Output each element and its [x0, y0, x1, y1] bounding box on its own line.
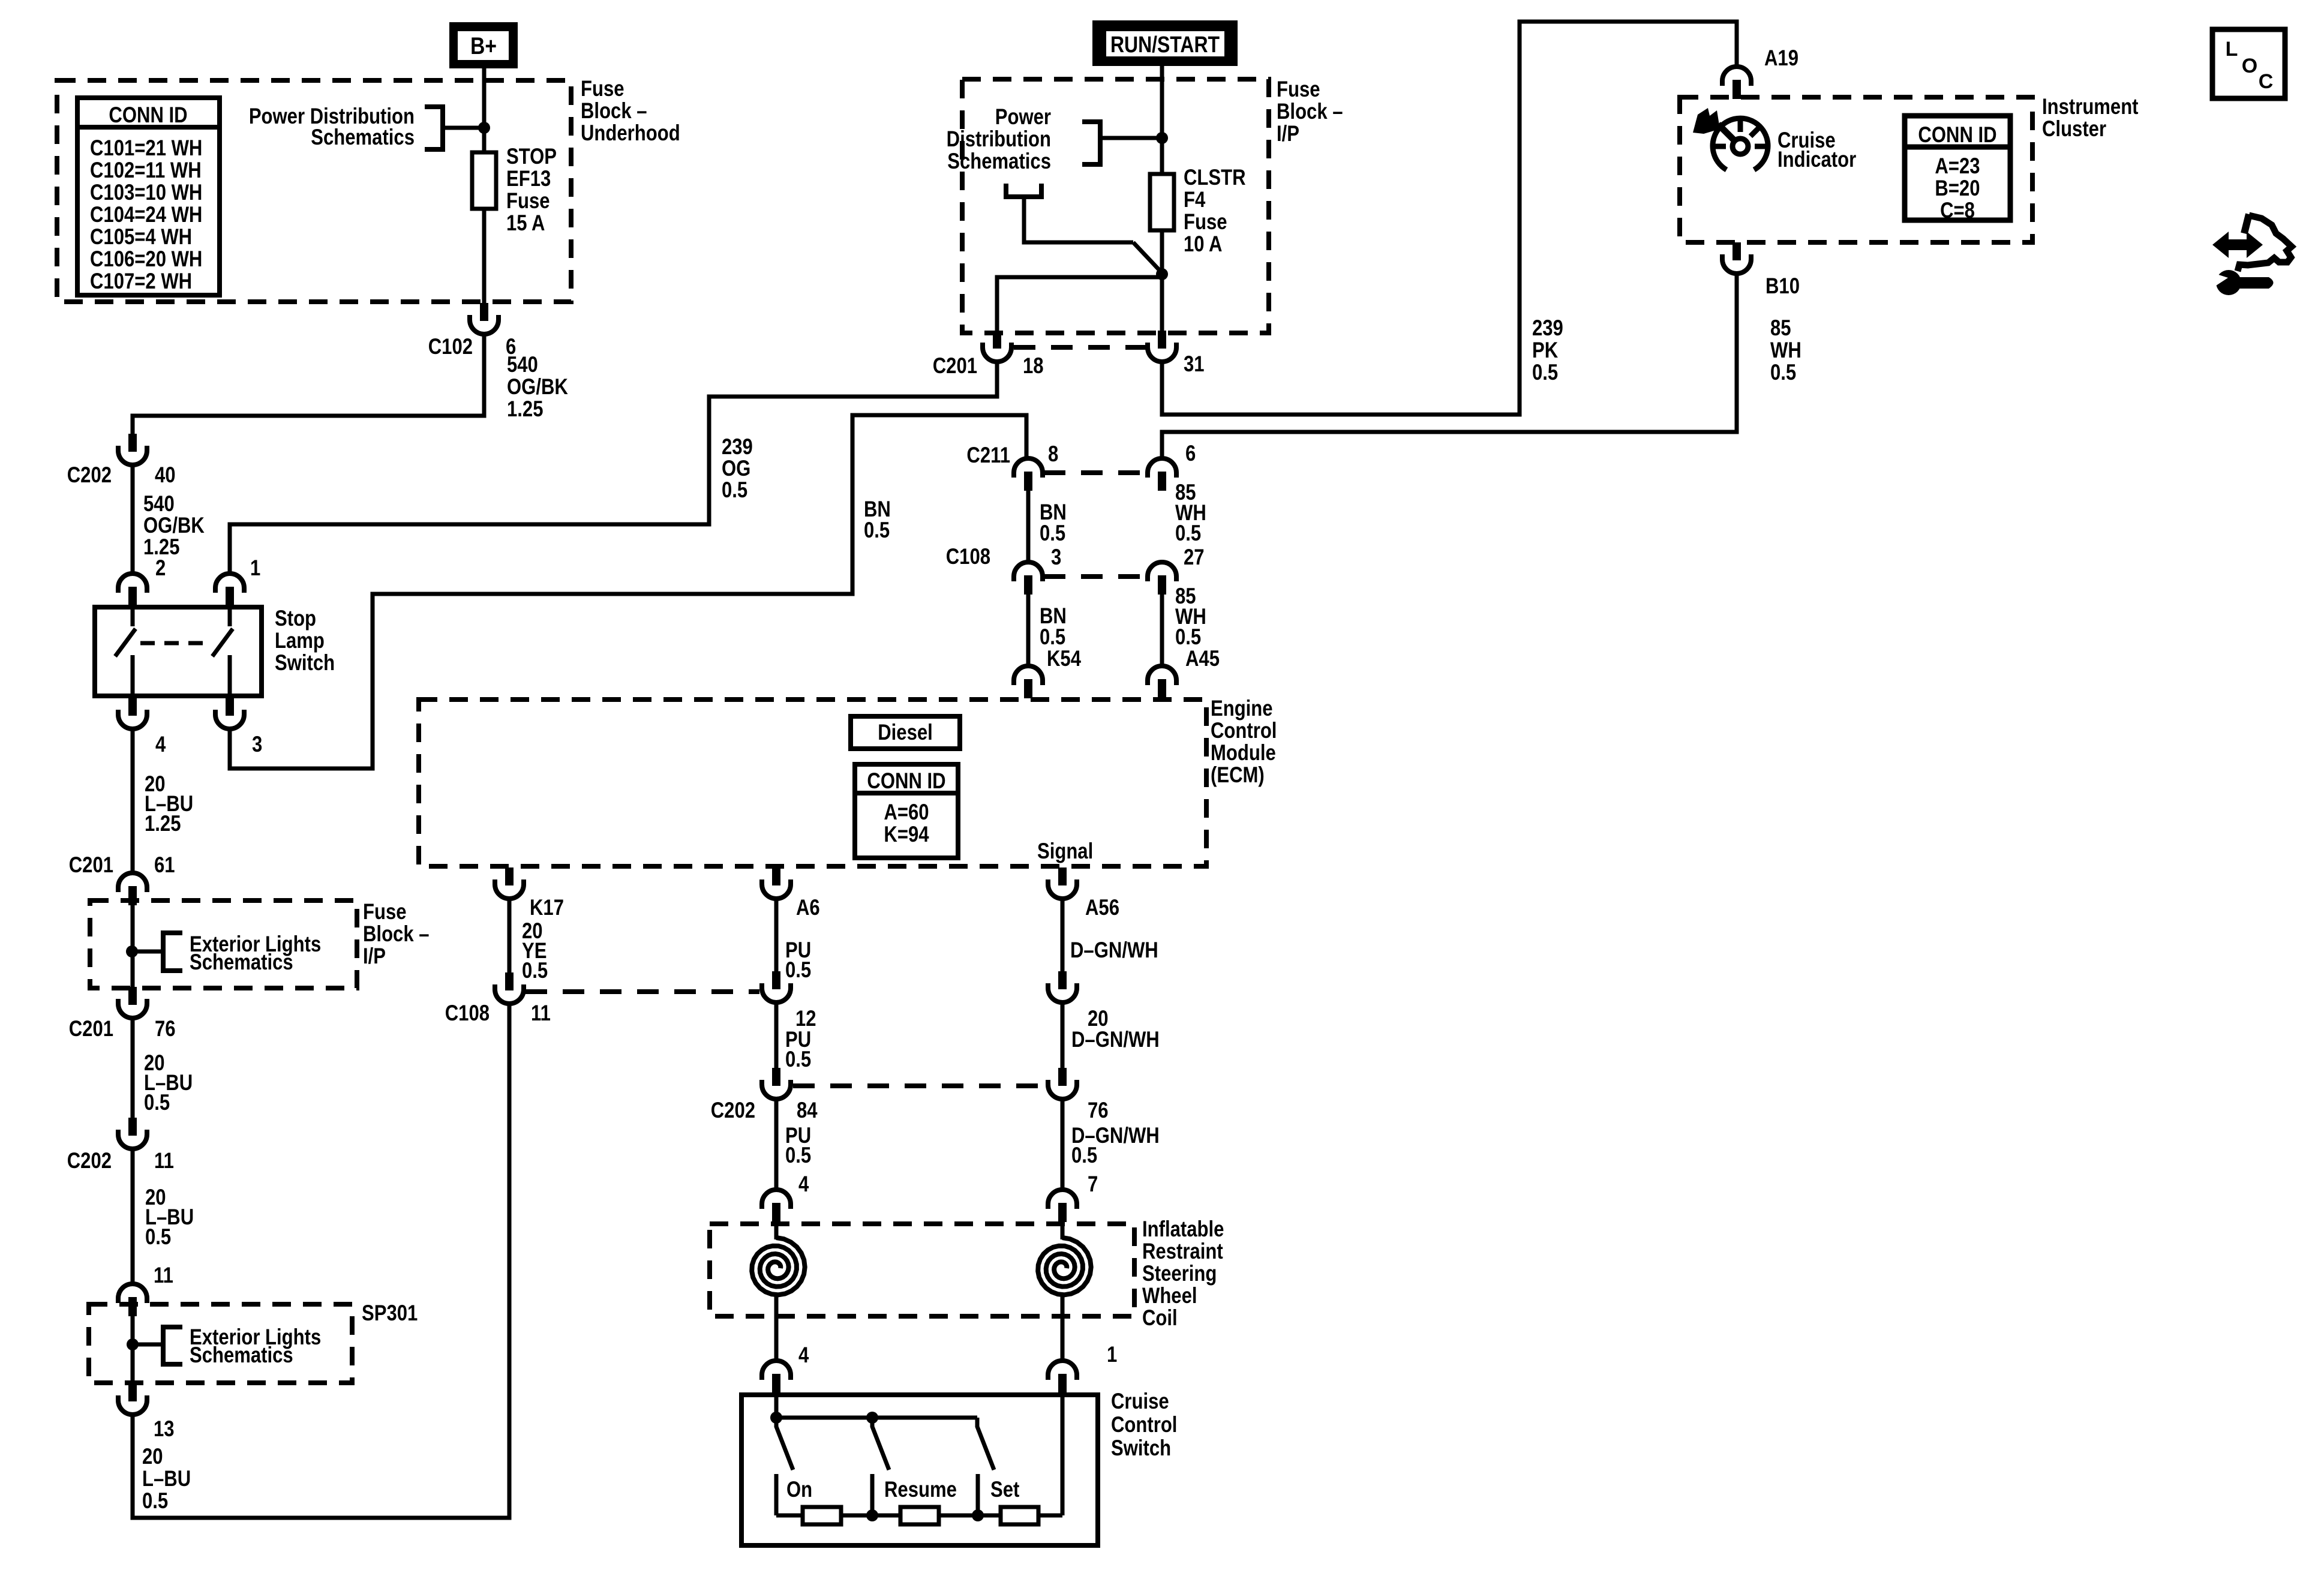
wire pin1 into switch: [1061, 1393, 1065, 1515]
wire C202-11 to SP301: [131, 1150, 135, 1284]
svg-text:84: 84: [797, 1098, 818, 1123]
wire pin2 stub into box: [131, 605, 135, 626]
connector stop lamp pin 2: [118, 574, 147, 606]
wire into left coil: [774, 1222, 779, 1239]
svg-text:C202: C202: [711, 1098, 755, 1123]
connector C202 pin 84: [762, 1068, 791, 1099]
wire dot to bracket upper: [132, 950, 163, 954]
switch blade On: [776, 1420, 793, 1470]
wire B+ down to fuse: [482, 66, 487, 155]
svg-text:2: 2: [155, 556, 166, 581]
wire into right coil: [1061, 1222, 1065, 1239]
svg-text:B+: B+: [470, 32, 497, 59]
wire pin1 stub into box: [228, 605, 232, 626]
connector C202 pin 40: [118, 434, 147, 465]
bracket exterior lights lower: [163, 1327, 182, 1364]
junction dot B+ wire: [478, 122, 490, 134]
svg-text:Signal: Signal: [1037, 839, 1093, 864]
switch contact left: [131, 655, 135, 696]
junction dot bus bottom mid: [866, 1509, 878, 1521]
svg-text:A56: A56: [1085, 896, 1119, 920]
dashed link C108 11-12: [526, 989, 759, 994]
dashed link C202 84-76: [793, 1083, 1046, 1088]
svg-text:11: 11: [154, 1263, 173, 1288]
wire C202-84 to coil pin 4: [774, 1100, 779, 1190]
wire B10 to C211-6: [1162, 275, 1737, 458]
svg-text:4: 4: [798, 1343, 809, 1368]
connector C201 pin 31: [1148, 331, 1176, 362]
switch contact Set: [976, 1474, 980, 1515]
svg-text:C201: C201: [69, 1017, 113, 1041]
connector B10: [1722, 242, 1751, 274]
svg-text:Diesel: Diesel: [878, 721, 933, 745]
terminal B+: [449, 22, 518, 68]
connector C201 pin 76: [118, 987, 147, 1018]
wire branch to C201-18: [997, 277, 1162, 331]
switch contact On: [774, 1474, 779, 1515]
svg-text:A6: A6: [796, 896, 820, 920]
fuse block underhood box: [57, 80, 571, 302]
connector ECM pin A45: [1148, 666, 1176, 698]
connector cruise switch pin 4: [762, 1361, 791, 1393]
connector ECM pin A6: [762, 867, 791, 899]
svg-text:BN0.5: BN0.5: [864, 497, 891, 543]
wire fuse to C102: [482, 209, 487, 303]
instrument cluster box: [1680, 97, 2032, 242]
engine control module box: [419, 700, 1206, 866]
svg-text:K17: K17: [530, 896, 564, 920]
connector C108 pin 27: [1148, 562, 1176, 595]
conn id table underhood: [77, 98, 220, 295]
svg-text:BN0.5: BN0.5: [1040, 604, 1067, 650]
switch bus top: [776, 1416, 977, 1420]
fuse CLSTR F4: [1150, 174, 1174, 230]
svg-text:On: On: [786, 1478, 812, 1502]
splice SP301 box: [89, 1304, 352, 1383]
wire bracket to run/start wire: [1100, 136, 1162, 140]
wire pin4 into switch: [774, 1393, 779, 1418]
svg-text:D–GN/WH: D–GN/WH: [1071, 1028, 1160, 1052]
connector C102 pin 6: [470, 303, 499, 334]
svg-text:D–GN/WH: D–GN/WH: [1070, 938, 1158, 963]
svg-text:A=23B=20C=8: A=23B=20C=8: [1935, 154, 1980, 223]
connector cruise switch pin 1: [1048, 1361, 1077, 1393]
connector ECM pin K54: [1014, 666, 1043, 698]
connector C211 pin 6: [1148, 458, 1176, 491]
connector C211 pin 8: [1014, 458, 1043, 491]
svg-text:11: 11: [531, 1001, 551, 1026]
svg-text:C202: C202: [67, 463, 112, 488]
svg-text:RUN/START: RUN/START: [1110, 32, 1220, 57]
wire through SP301: [131, 1316, 135, 1383]
svg-text:3: 3: [252, 733, 262, 757]
junction dot bus bottom right: [972, 1509, 984, 1521]
svg-text:4: 4: [155, 733, 166, 757]
bracket exterior lights upper: [163, 933, 182, 971]
svg-text:A=60K=94: A=60K=94: [884, 800, 929, 847]
svg-text:C108: C108: [946, 545, 990, 569]
switch blade right: [212, 629, 233, 656]
bracket power distribution right: [1082, 122, 1100, 164]
switch contact right: [228, 655, 232, 696]
wire C201-31 to A19: [1162, 22, 1737, 415]
wire A56 to pin 20: [1061, 898, 1065, 971]
svg-text:BN0.5: BN0.5: [1040, 500, 1067, 546]
svg-text:C201: C201: [69, 853, 113, 878]
svg-text:3: 3: [1051, 545, 1061, 570]
connector pin 12: [762, 971, 791, 1002]
connector C202 pin 11: [118, 1118, 147, 1149]
fuse block IP top box: [962, 79, 1269, 333]
switch blade Resume: [872, 1420, 889, 1470]
junction dot below fuse F4: [1156, 268, 1168, 280]
svg-text:C202: C202: [67, 1149, 112, 1173]
svg-text:76: 76: [155, 1017, 176, 1041]
wire out of left coil: [774, 1295, 779, 1361]
svg-text:CONN ID: CONN ID: [1918, 123, 1996, 148]
junction dot exterior lights lower: [127, 1338, 139, 1350]
svg-text:PU0.5: PU0.5: [785, 1124, 811, 1168]
dashed link C201: [1014, 345, 1146, 350]
connector C108 pin 3: [1014, 562, 1043, 595]
svg-text:B10: B10: [1765, 274, 1800, 299]
wire bracket to B+ wire: [443, 126, 484, 130]
diesel box: [851, 716, 960, 749]
wire cup down and right: [1024, 199, 1133, 242]
fuse STOP EF13: [472, 152, 496, 209]
svg-text:31: 31: [1184, 352, 1205, 377]
svg-text:SP301: SP301: [362, 1301, 418, 1326]
svg-text:C211: C211: [966, 443, 1010, 468]
wire pin12 to C202-84: [774, 1004, 779, 1068]
svg-text:11: 11: [154, 1149, 174, 1173]
connector coil pin 4: [762, 1190, 791, 1222]
svg-text:40: 40: [155, 463, 176, 488]
wire fuse F4 down: [1160, 230, 1164, 331]
wire diagonal to junction: [1133, 242, 1163, 274]
svg-text:61: 61: [154, 853, 175, 878]
wire C202-40 to stop lamp pin 2: [131, 466, 135, 575]
svg-text:Set: Set: [990, 1478, 1019, 1502]
svg-text:27: 27: [1184, 545, 1205, 570]
junction dot bus left: [770, 1412, 782, 1424]
connector C201 pin 18: [983, 331, 1011, 362]
connector C108 pin 11: [495, 972, 524, 1004]
svg-text:76: 76: [1088, 1098, 1109, 1123]
conn id table cluster: [1905, 116, 2010, 223]
svg-text:CONN ID: CONN ID: [109, 103, 187, 128]
fuse block IP left box: [90, 900, 357, 988]
svg-text:6: 6: [1185, 442, 1196, 466]
wire C201-18 to stop lamp pin 1: [230, 363, 997, 574]
svg-text:1: 1: [250, 556, 260, 581]
resistor R1: [803, 1507, 841, 1524]
wire C102 to C202-40: [133, 335, 484, 434]
diagnostic icon wrench: [2213, 270, 2274, 295]
power distribution cup symbol: [1006, 184, 1041, 197]
svg-text:Resume: Resume: [884, 1478, 957, 1502]
switch blade left: [115, 629, 136, 656]
switch blade Set: [977, 1418, 994, 1470]
wire C211-8 to C108-3: [1026, 491, 1031, 562]
wire through fuse block IP: [131, 905, 135, 987]
wire C108-3 to K54: [1026, 595, 1031, 666]
svg-text:PU0.5: PU0.5: [785, 1028, 811, 1072]
connector ECM pin A56: [1048, 867, 1077, 899]
cruise control switch box: [741, 1395, 1098, 1545]
svg-text:C101=21 WHC102=11 WHC103=10 WH: C101=21 WHC102=11 WHC103=10 WHC104=24 WH…: [90, 136, 202, 294]
wire SP301-13 to C108-11 bottom run: [133, 1003, 509, 1518]
wire out of right coil: [1061, 1295, 1065, 1361]
wire stop lamp pin 3 to C211-8: [230, 415, 1026, 769]
diagnostic icon arrow: [2212, 232, 2263, 258]
connector stop lamp pin 3: [215, 698, 244, 729]
resistor R3: [1001, 1507, 1038, 1524]
wire stop lamp pin 4 to C201-61: [131, 730, 135, 873]
wire pin20 to C202-76: [1061, 1004, 1065, 1068]
wire A6 to pin 12: [774, 898, 779, 971]
svg-text:7: 7: [1088, 1172, 1098, 1197]
conn id table ecm: [855, 764, 958, 858]
connector stop lamp pin 4: [118, 698, 147, 729]
dashed link C211: [1044, 470, 1146, 475]
svg-text:8: 8: [1048, 442, 1058, 467]
connector coil pin 7: [1048, 1190, 1077, 1222]
svg-text:K54: K54: [1047, 647, 1081, 671]
inflatable restraint coil box: [710, 1224, 1134, 1316]
dashed link C108: [1044, 574, 1146, 579]
bracket power distribution left: [425, 107, 443, 149]
wire C201-76 to C202-11: [131, 1019, 135, 1118]
svg-text:C102: C102: [428, 335, 473, 359]
junction dot run/start wire: [1156, 132, 1168, 144]
diagnostic icon outline: [2238, 214, 2292, 271]
dashed link between blades: [140, 641, 211, 646]
connector stop lamp pin 1: [215, 574, 244, 606]
coil spiral right: [1038, 1238, 1091, 1295]
svg-text:18: 18: [1023, 354, 1044, 379]
cruise indicator gauge: [1693, 108, 1768, 170]
svg-text:4: 4: [798, 1172, 809, 1197]
connector splice SP301 in: [118, 1284, 147, 1316]
junction dot bus mid: [866, 1412, 878, 1424]
switch contact Resume: [870, 1474, 875, 1515]
connector C201 pin 61: [118, 873, 147, 905]
wire C202-76 to coil pin 7: [1061, 1100, 1065, 1190]
svg-text:C108: C108: [445, 1001, 490, 1026]
loc reference box: [2212, 29, 2285, 98]
svg-text:1: 1: [1107, 1343, 1117, 1367]
svg-text:C201: C201: [933, 354, 977, 379]
wire RUN/START down to fuse F4: [1160, 66, 1164, 174]
stop lamp switch box: [95, 607, 262, 696]
connector pin 20: [1048, 971, 1077, 1002]
connector A19: [1722, 67, 1751, 99]
connector ECM pin K17: [495, 867, 524, 899]
svg-text:A45: A45: [1185, 647, 1220, 671]
terminal RUN/START: [1092, 20, 1238, 66]
resistor R2: [900, 1507, 939, 1524]
svg-text:CruiseControlSwitch: CruiseControlSwitch: [1111, 1389, 1177, 1461]
switch bus bottom: [776, 1514, 1062, 1518]
wire K17 to C108-11: [508, 898, 512, 972]
connector SP301 pin 13: [118, 1383, 147, 1415]
coil spiral left: [752, 1238, 805, 1295]
junction dot exterior lights upper: [126, 945, 138, 957]
wire C108-27 to A45: [1160, 595, 1164, 666]
svg-text:PU0.5: PU0.5: [785, 938, 811, 983]
wire dot to bracket lower: [133, 1343, 163, 1347]
svg-text:13: 13: [154, 1417, 175, 1442]
connector C202 pin 76: [1048, 1068, 1077, 1099]
svg-text:CONN ID: CONN ID: [867, 769, 945, 794]
svg-text:A19: A19: [1764, 46, 1798, 71]
